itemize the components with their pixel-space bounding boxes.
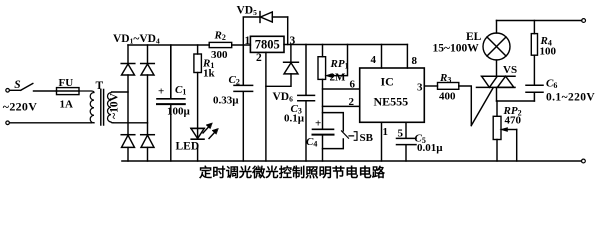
diode VD3 lower-left [121, 135, 135, 148]
wire secondary bottom tap to bridge right leg [113, 122, 148, 124]
push button SB branch [323, 113, 358, 149]
resistor R1 [194, 45, 202, 128]
terminal bottom-right output [582, 159, 586, 163]
svg-text:+: + [315, 118, 321, 130]
wire pin8 [406, 45, 408, 69]
potentiometer RP2 [493, 101, 517, 161]
svg-text:100µ: 100µ [167, 106, 191, 118]
capacitor C6 [526, 55, 543, 101]
wire 7805 output rail [284, 44, 407, 46]
svg-text:~10V: ~10V [109, 92, 121, 118]
wire bottom ground rail [122, 160, 581, 162]
svg-text:LED: LED [176, 141, 200, 153]
terminal bottom-left input [6, 121, 10, 125]
svg-text:0.1~220V: 0.1~220V [546, 92, 595, 104]
LED [191, 123, 218, 161]
wire bottom input to transformer [10, 122, 92, 124]
wire pin5 [405, 122, 407, 138]
wire pin6 [323, 88, 360, 90]
diode VD2 upper-right [141, 64, 155, 76]
capacitor C2 [234, 45, 253, 161]
terminal top-right output [582, 19, 586, 23]
resistor R2 [209, 42, 250, 47]
svg-text:IC: IC [381, 75, 394, 89]
diode VD4 lower-right [141, 135, 155, 148]
svg-text:3: 3 [417, 82, 423, 94]
terminal top-left input [6, 89, 10, 93]
svg-text:T: T [96, 80, 104, 92]
diode VD5 [260, 12, 288, 23]
diode VD6 [266, 45, 299, 87]
wire switch to fuse [34, 90, 57, 92]
svg-text:5: 5 [398, 128, 404, 140]
svg-text:1k: 1k [203, 68, 216, 80]
svg-text:FU: FU [59, 77, 74, 89]
diode VD1 upper-left [121, 64, 135, 76]
svg-text:3: 3 [290, 35, 296, 47]
svg-text:S: S [14, 79, 20, 91]
wire gate diagonal to triac [471, 88, 493, 126]
svg-text:1: 1 [383, 126, 389, 138]
IC U2 NE555 box [360, 68, 425, 122]
svg-text:2M: 2M [330, 72, 347, 84]
potentiometer RP1 [318, 45, 348, 80]
capacitor C5 [397, 138, 417, 161]
fuse FU 1A [57, 88, 80, 95]
svg-text:VD1~VD4: VD1~VD4 [113, 33, 160, 46]
svg-text:2: 2 [256, 52, 262, 64]
wire pin1 to ground [381, 122, 383, 161]
svg-text:1: 1 [245, 35, 251, 47]
triac VS [477, 76, 516, 101]
svg-text:VS: VS [503, 64, 517, 76]
svg-text:EL: EL [466, 31, 482, 43]
wire VD5 right vertical to output [287, 17, 289, 45]
svg-text:0.1µ: 0.1µ [284, 113, 305, 125]
wire triac MT1 to snubber [497, 100, 535, 102]
lamp EL [483, 21, 510, 77]
svg-text:+: + [158, 86, 164, 98]
svg-text:470: 470 [505, 115, 522, 127]
wire DC positive rail [128, 44, 209, 46]
wire pin4 [381, 45, 383, 69]
svg-text:1A: 1A [60, 99, 74, 111]
svg-text:7805: 7805 [255, 38, 280, 52]
svg-text:4: 4 [371, 54, 377, 66]
svg-text:SB: SB [360, 132, 374, 144]
transformer core [101, 90, 104, 126]
transformer T primary winding [79, 91, 94, 123]
wire VD5 branch left vertical [243, 17, 260, 45]
capacitor C3 [298, 45, 315, 162]
switch S [10, 84, 33, 91]
wire pin2 [323, 105, 360, 107]
wire pin3 output [424, 85, 437, 87]
bridge rectifier left leg wire [127, 45, 129, 161]
capacitor C4 electrolytic [313, 129, 334, 161]
svg-text:100: 100 [540, 46, 557, 58]
svg-text:400: 400 [439, 91, 456, 103]
svg-text:15~100W: 15~100W [433, 43, 480, 55]
resistor R4 [531, 21, 537, 56]
wire secondary top tap to bridge left leg [112, 91, 128, 93]
capacitor C1 electrolytic [157, 45, 185, 161]
svg-text:300: 300 [211, 49, 228, 61]
svg-text:0.01µ: 0.01µ [417, 142, 443, 154]
svg-text:定时调光微光控制照明节电电路: 定时调光微光控制照明节电电路 [199, 164, 386, 180]
pin2 ground wire of 7805 [265, 52, 267, 161]
svg-text:6: 6 [350, 79, 356, 91]
svg-text:2: 2 [349, 96, 355, 108]
transformer T secondary winding [108, 93, 113, 123]
svg-text:~220V: ~220V [3, 100, 37, 114]
regulator U1 7805 [250, 36, 284, 52]
svg-text:NE555: NE555 [374, 94, 409, 108]
svg-text:8: 8 [412, 55, 418, 67]
svg-text:0.33µ: 0.33µ [213, 95, 239, 107]
node wire pins 2 and 6 [322, 79, 324, 128]
resistor R3 [438, 83, 472, 126]
wire top output rail [497, 20, 582, 22]
bridge rectifier right leg wire [147, 45, 149, 161]
